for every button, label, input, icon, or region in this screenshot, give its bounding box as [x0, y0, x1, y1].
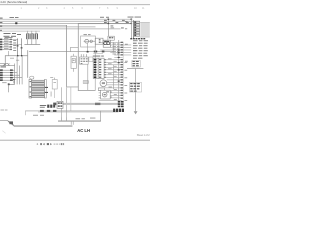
aux box B1: [95, 38, 103, 44]
main module bottom edge: [78, 89, 96, 92]
gray harness block: [140, 22, 149, 37]
right cluster RC3: [130, 82, 142, 92]
svg-text:4 AC (Service Manual): 4 AC (Service Manual): [0, 0, 27, 4]
right connector RC1 vertical rail: [130, 19, 133, 39]
vertical wire B: [20, 38, 23, 56]
power bus wire 7: [0, 30, 40, 33]
connector C1 pin wires: [2, 39, 12, 50]
text inside bottom box: [33, 114, 38, 117]
off-page arrow left: [3, 63, 6, 66]
power bus wire 1: [0, 18, 131, 21]
J3 wire labels: [108, 58, 117, 76]
pin dash row on edge: [113, 109, 124, 112]
wire L-drop: [4, 55, 7, 62]
label box under J2: [83, 81, 88, 84]
power bus wire 6: [0, 28, 121, 31]
M2 wires: [107, 79, 123, 82]
nav icon page: [47, 143, 49, 145]
box bottom-left corner wire: [66, 86, 78, 89]
vertical wire C: [13, 64, 16, 85]
vertical trunk wire G: [65, 25, 68, 87]
ground drop wire: [7, 85, 10, 93]
window title bar: [0, 0, 150, 4]
wire corner above fuse box: [70, 46, 78, 49]
nav icon dot: [37, 143, 38, 144]
cluster box U1: [103, 40, 110, 47]
vertical wire D: [16, 56, 19, 85]
bottom box top edge: [25, 110, 118, 113]
sensor S2 circle: [102, 92, 107, 97]
J3 output wires: [106, 60, 122, 78]
relay block K1 striped connector: [29, 76, 48, 98]
wire below J2: [87, 64, 90, 90]
fuse F2: [31, 31, 34, 45]
motor M2 circle: [100, 80, 107, 87]
vertical wire E: [18, 66, 21, 85]
vertical wire I: [112, 42, 115, 52]
motor M1 circle: [85, 39, 89, 43]
bus label text row top-left: [10, 17, 142, 18]
net label column far right of module: [125, 21, 128, 61]
bottom box right edge: [99, 111, 102, 122]
multi-row connector J3: [93, 58, 106, 78]
wire labels right block: [113, 44, 120, 55]
bus label ticks right section: [104, 20, 129, 29]
bus junction dots: [108, 19, 110, 20]
vertical trunk wire G3: [70, 87, 73, 110]
status bar: [0, 139, 150, 142]
component cluster bottom-left: [47, 105, 55, 108]
vertical wire F: [21, 56, 24, 85]
power bus wire 5: [0, 26, 96, 29]
vertical trunk wire H: [60, 87, 63, 121]
nav icon end marks: [61, 143, 63, 145]
fuse bus wire: [24, 43, 40, 46]
vertical wire J: [112, 65, 115, 90]
wire below resistor box: [53, 89, 56, 98]
connector J2 box: [80, 57, 89, 64]
net label column mid-left: [13, 40, 16, 51]
nav icon next: [50, 143, 52, 145]
ECU box outline left edge: [26, 50, 29, 78]
junction dot: [8, 83, 10, 85]
X junction symbol: [7, 63, 9, 66]
connector C1 pin terminals: [10, 39, 12, 50]
bottom box left edge: [24, 111, 27, 116]
net labels lower right margin: [124, 62, 127, 101]
junction mark on bend: [9, 121, 13, 124]
labels left of cluster: [40, 104, 46, 107]
bus end ticks: [70, 121, 73, 124]
main module top edge: [78, 22, 131, 25]
dark marks on box top edge: [40, 110, 56, 112]
power bus wire 4: [0, 24, 67, 27]
pin terminal column right: [121, 42, 124, 99]
RC1 bottom terminal row: [130, 38, 145, 39]
vertical wire to arrow: [134, 69, 137, 112]
ground feed wire from left: [0, 119, 8, 122]
connector J2 contacts: [81, 58, 88, 64]
power bus wire 3: [0, 22, 131, 25]
nav icon prev: [43, 143, 45, 145]
wire stub row1 to vertical A: [12, 38, 18, 41]
aux small box right of J2: [89, 57, 93, 62]
label above motor: [84, 33, 87, 36]
junction pin cluster right: [118, 101, 124, 107]
main module right edge segment: [94, 44, 97, 91]
page column grid numbers: [21, 7, 146, 10]
wire bend diagonal: [8, 120, 15, 126]
pin column rail: [122, 42, 125, 101]
vertical wire A: [16, 38, 19, 56]
right connector RC1 cells: [134, 21, 139, 36]
power bus wire 2: [0, 20, 140, 23]
bus start terminal marks: [0, 18, 3, 31]
cluster U1 upper box: [108, 36, 114, 40]
box under M2: [98, 88, 104, 91]
net label above ground: [2, 81, 6, 84]
connector C1 wire labels: [4, 38, 9, 49]
net label text column right margin: [133, 40, 148, 59]
sensor symbol: [90, 40, 92, 42]
stub rail below junction: [93, 52, 103, 55]
connector C2 pin terminals: [10, 69, 13, 81]
connector C2 pin wires: [3, 70, 22, 81]
sensor module box S2: [101, 90, 111, 99]
wire code labels left: [4, 33, 22, 37]
connector C2 label: [1, 66, 7, 67]
tiny footer net text far left: [1, 109, 5, 112]
fuse F1: [26, 31, 29, 45]
bus 6 label: [111, 26, 115, 29]
resistor module box: [52, 80, 57, 90]
thick ground bus: [14, 125, 73, 127]
pin ticks above connector J2: [81, 54, 87, 57]
dark segment on heater bus: [53, 103, 56, 106]
motor drop wire: [86, 43, 89, 51]
gauge symbol 1: [104, 42, 107, 45]
off-page arrow down: [134, 111, 138, 114]
fuse F3: [35, 31, 38, 45]
ground wire L: [8, 83, 14, 86]
wire through motor: [84, 40, 96, 43]
lower right wire labels: [109, 87, 117, 100]
ECU box outline top edge: [29, 50, 113, 53]
right cluster RC2: [132, 60, 140, 67]
junction dots: [17, 55, 18, 56]
connector C1 header label: [5, 36, 13, 39]
inline relay box on heater bus: [57, 101, 63, 108]
heater return bus lower line: [38, 111, 118, 114]
mid-right wires row group: [100, 42, 131, 57]
stray mark lower left: [2, 130, 6, 133]
switch symbol right of C2: [13, 79, 16, 83]
lower right wire rows: [99, 88, 123, 101]
vertical drop wire x108: [107, 19, 110, 36]
gauge symbol 2: [107, 42, 110, 45]
connector header text: [93, 55, 101, 58]
connector block C1 left edge: [0, 39, 2, 51]
nav extra icons: [54, 143, 56, 145]
vertical label text: [51, 92, 52, 97]
svg-text:AC LH: AC LH: [77, 128, 90, 133]
vertical wire K with junctions: [117, 40, 120, 102]
fuse F4 symbol box: [71, 54, 76, 72]
connector block C2 left edge: [0, 69, 3, 81]
tiny net labels below C1: [10, 57, 14, 60]
main control module box left edge: [77, 23, 80, 90]
tick wires into bottom box: [60, 117, 63, 120]
nav icon first: [40, 143, 42, 145]
junction on wire B: [21, 47, 23, 48]
RC2 bus wire: [127, 67, 143, 70]
blower unit box: [81, 36, 96, 47]
junction dot on module top rail: [87, 51, 89, 53]
heater bus thick wire: [56, 103, 118, 105]
bottom box bottom edge: [58, 120, 101, 121]
horizontal wire to box: [5, 54, 28, 57]
junction node on bus 3: [15, 22, 17, 24]
junction on wire A: [17, 45, 19, 46]
svg-text:Sheet 1 of 2: Sheet 1 of 2: [137, 134, 150, 137]
stub wire down: [7, 51, 10, 56]
vertical trunk wire G2: [65, 87, 68, 121]
connector C2 top wires: [0, 62, 9, 65]
wire stub row3 to vertical B: [12, 43, 22, 46]
terminal marks on top edge: [94, 51, 97, 53]
